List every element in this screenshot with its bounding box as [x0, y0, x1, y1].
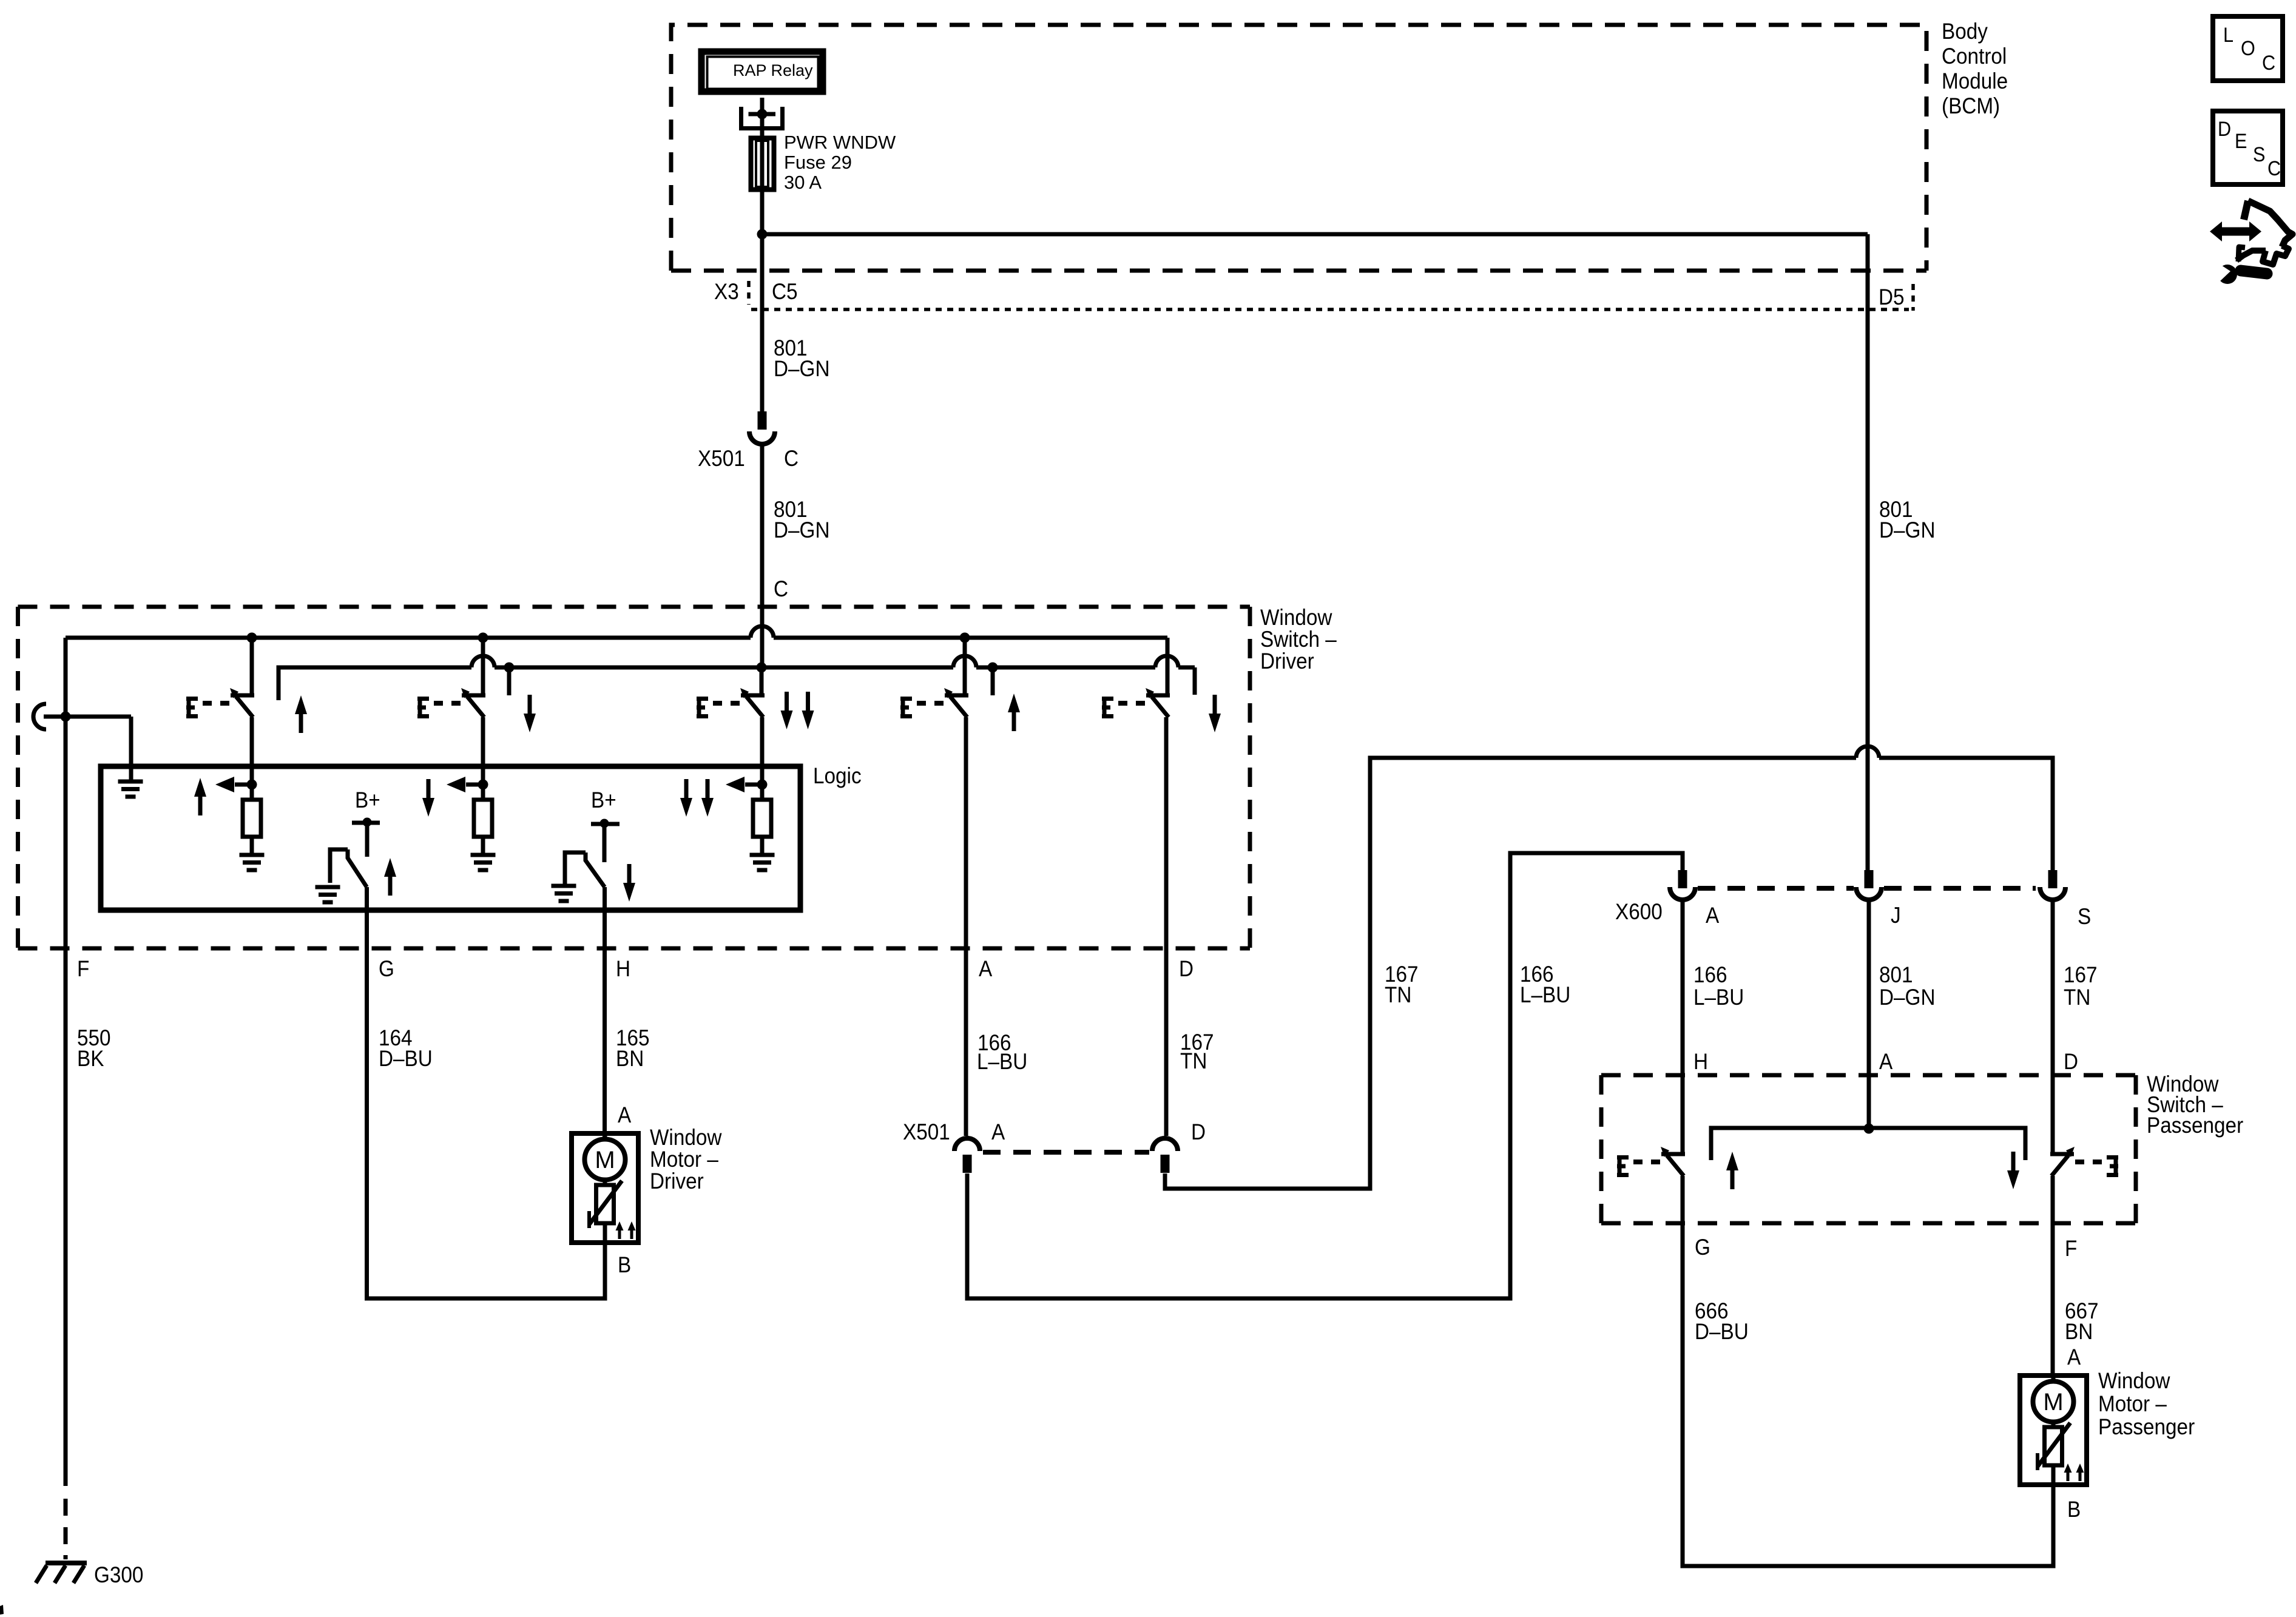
svg-text:G: G [1695, 1235, 1710, 1260]
svg-text:C: C [774, 576, 788, 601]
svg-text:D–BU: D–BU [1695, 1319, 1749, 1344]
svg-text:Window: Window [2098, 1368, 2170, 1393]
svg-text:Passenger: Passenger [2147, 1113, 2243, 1138]
svg-text:30 A: 30 A [784, 172, 822, 193]
svg-text:D–GN: D–GN [1879, 518, 1935, 542]
svg-text:X501: X501 [698, 446, 745, 471]
svg-text:166: 166 [1693, 962, 1727, 987]
svg-text:D–BU: D–BU [379, 1046, 433, 1071]
svg-text:Body: Body [1942, 19, 1988, 44]
svg-text:TN: TN [1180, 1048, 1207, 1073]
svg-text:C: C [784, 446, 799, 471]
svg-text:Driver: Driver [1260, 649, 1314, 673]
svg-text:X501: X501 [903, 1119, 950, 1144]
svg-text:D–GN: D–GN [774, 356, 829, 381]
svg-text:Module: Module [1942, 69, 2008, 93]
svg-text:L–BU: L–BU [977, 1049, 1027, 1074]
svg-text:D–GN: D–GN [1879, 985, 1935, 1010]
svg-text:C5: C5 [772, 279, 798, 304]
svg-text:Motor –: Motor – [2098, 1391, 2167, 1416]
svg-text:Motor –: Motor – [650, 1147, 718, 1172]
svg-text:L–BU: L–BU [1520, 982, 1570, 1007]
svg-text:F: F [2065, 1236, 2077, 1261]
svg-text:D: D [1191, 1119, 1206, 1144]
svg-text:C: C [2267, 157, 2281, 180]
svg-text:PWR WNDW: PWR WNDW [784, 132, 896, 153]
svg-text:A: A [2067, 1345, 2081, 1369]
svg-text:D5: D5 [1879, 285, 1905, 309]
svg-text:A: A [979, 956, 993, 981]
svg-text:O: O [2241, 37, 2255, 60]
svg-text:G: G [379, 956, 394, 981]
svg-text:B: B [2067, 1497, 2081, 1522]
svg-text:Fuse 29: Fuse 29 [784, 152, 852, 173]
svg-text:G300: G300 [94, 1562, 143, 1587]
svg-text:BN: BN [616, 1046, 644, 1071]
svg-text:RAP Relay: RAP Relay [733, 61, 813, 79]
svg-text:167: 167 [2064, 962, 2098, 987]
svg-text:A: A [991, 1119, 1005, 1144]
svg-text:Control: Control [1942, 44, 2007, 69]
svg-text:J: J [1891, 903, 1901, 928]
svg-text:B: B [618, 1252, 631, 1277]
svg-text:Switch –: Switch – [1260, 627, 1337, 652]
svg-text:Window: Window [1260, 605, 1332, 630]
svg-text:A: A [1879, 1049, 1893, 1074]
svg-text:H: H [1693, 1049, 1708, 1074]
svg-text:D: D [2064, 1049, 2078, 1074]
svg-text:TN: TN [1385, 982, 1411, 1007]
svg-text:H: H [616, 956, 630, 981]
svg-text:Logic: Logic [813, 763, 862, 788]
svg-text:S: S [2253, 143, 2265, 166]
svg-text:(BCM): (BCM) [1942, 93, 2000, 118]
svg-text:BN: BN [2065, 1319, 2093, 1344]
svg-text:L–BU: L–BU [1693, 985, 1744, 1010]
svg-text:A: A [1706, 903, 1720, 928]
svg-text:D: D [2218, 118, 2231, 141]
svg-text:F: F [77, 956, 89, 981]
svg-text:BK: BK [77, 1046, 104, 1071]
svg-text:X600: X600 [1615, 899, 1663, 924]
svg-text:Passenger: Passenger [2098, 1414, 2195, 1439]
svg-text:D–GN: D–GN [774, 518, 829, 542]
svg-text:C: C [2262, 52, 2275, 75]
svg-text:E: E [2235, 130, 2247, 153]
svg-text:X3: X3 [714, 279, 739, 304]
svg-text:801: 801 [1879, 962, 1913, 987]
svg-text:L: L [2223, 24, 2234, 47]
svg-text:Driver: Driver [650, 1169, 704, 1193]
svg-text:S: S [2078, 904, 2091, 929]
svg-text:A: A [618, 1102, 632, 1127]
svg-text:B+: B+ [591, 788, 616, 812]
svg-text:TN: TN [2064, 985, 2090, 1010]
svg-text:Window: Window [650, 1125, 722, 1150]
svg-text:D: D [1179, 956, 1194, 981]
svg-text:B+: B+ [355, 788, 380, 812]
